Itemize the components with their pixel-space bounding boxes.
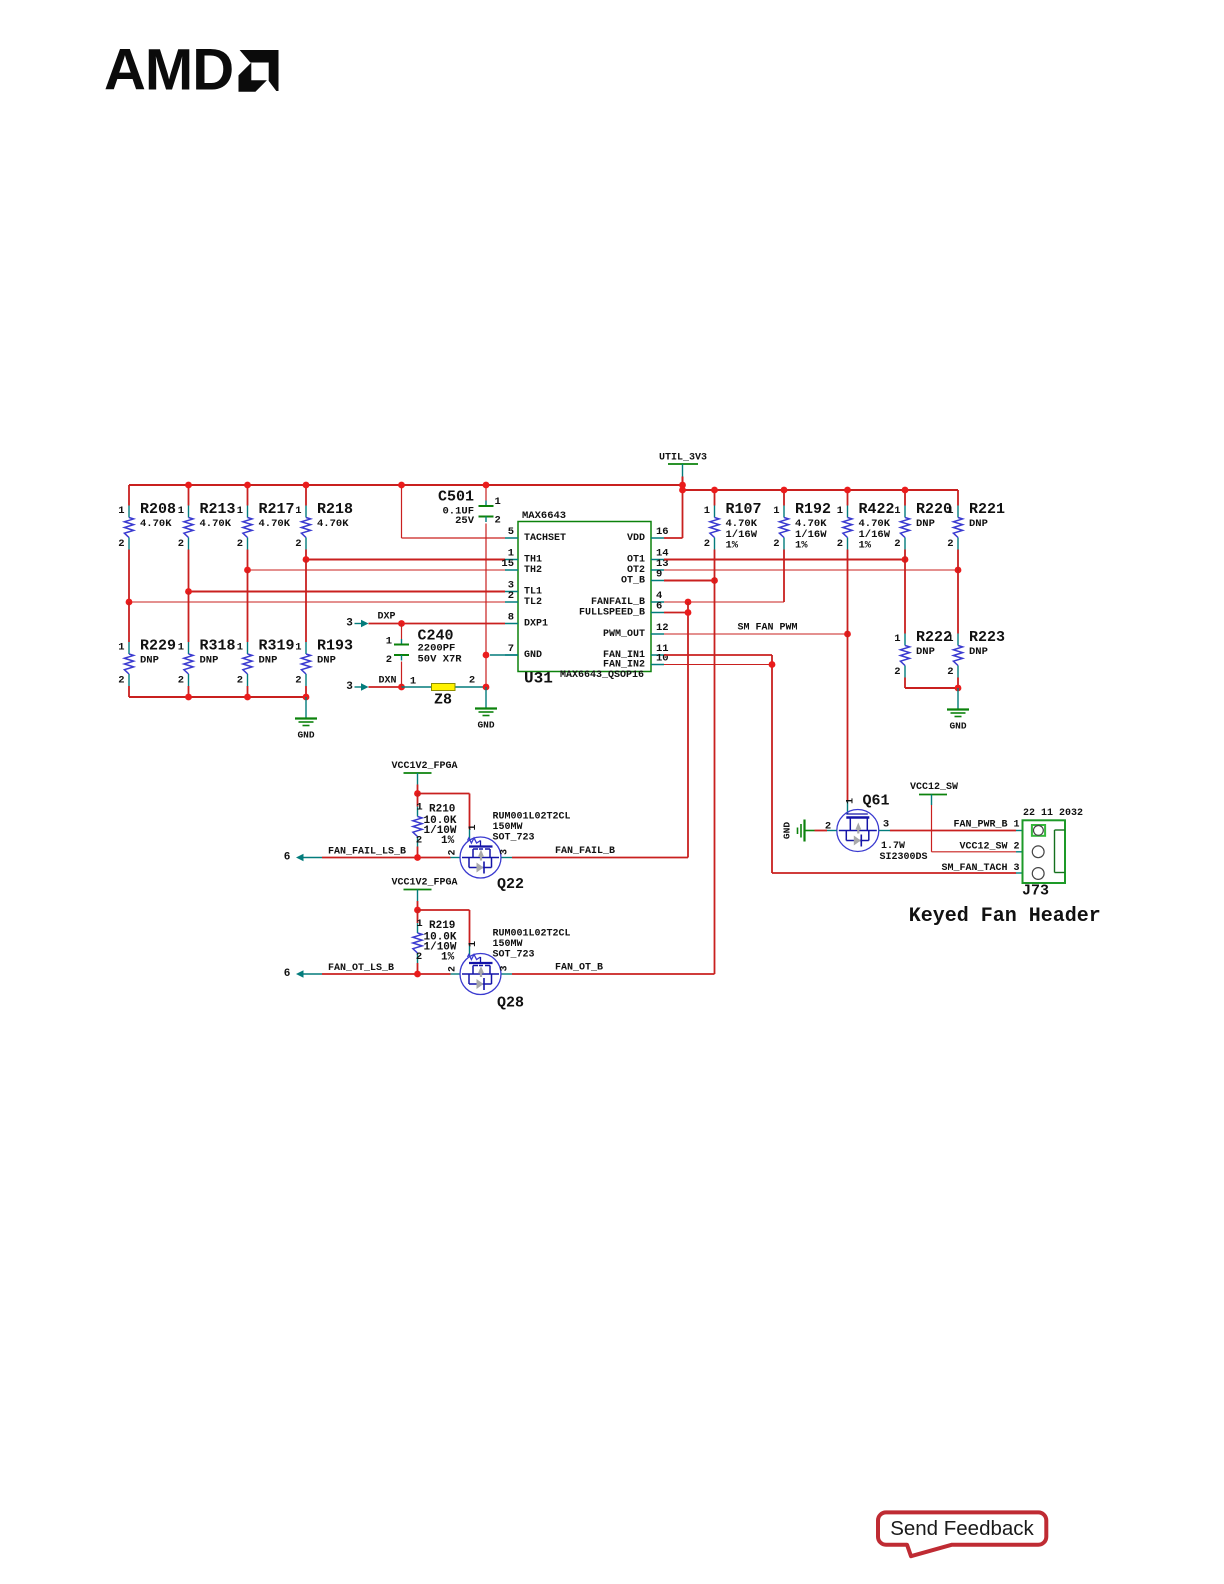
svg-text:Q61: Q61 bbox=[863, 793, 890, 810]
wire OT1 net bbox=[664, 550, 908, 634]
svg-text:FAN_OT_B: FAN_OT_B bbox=[555, 963, 603, 974]
svg-text:R193: R193 bbox=[317, 638, 353, 655]
svg-text:SOT_723: SOT_723 bbox=[493, 833, 535, 844]
wire TL2 net bbox=[126, 550, 505, 643]
svg-text:VCC12_SW: VCC12_SW bbox=[910, 782, 958, 793]
svg-text:15: 15 bbox=[501, 558, 514, 570]
resistor R210 bbox=[413, 802, 457, 848]
resistor R219 bbox=[413, 918, 457, 964]
svg-text:9: 9 bbox=[656, 569, 662, 581]
pin labels Q28 bbox=[448, 941, 511, 972]
power flag UTIL_3V3 bbox=[659, 453, 707, 477]
svg-text:OT_B: OT_B bbox=[621, 576, 645, 587]
wire FAN_OT_LS_B net bbox=[322, 963, 460, 977]
port DXP bbox=[346, 618, 368, 630]
svg-text:1: 1 bbox=[704, 505, 710, 517]
wire FAN_OT_B net bbox=[501, 963, 715, 975]
wire TL1 net bbox=[185, 550, 505, 643]
svg-text:2: 2 bbox=[178, 538, 184, 550]
svg-text:1: 1 bbox=[237, 505, 243, 517]
svg-text:2: 2 bbox=[495, 515, 501, 527]
svg-text:5: 5 bbox=[508, 526, 514, 538]
svg-text:1: 1 bbox=[118, 642, 124, 654]
wire R222 R223 gnd rail bbox=[905, 678, 961, 692]
svg-text:1: 1 bbox=[295, 642, 301, 654]
svg-text:6: 6 bbox=[656, 601, 662, 613]
svg-text:J73: J73 bbox=[1022, 883, 1049, 900]
svg-text:2: 2 bbox=[894, 538, 900, 550]
wire TH1 net bbox=[303, 550, 505, 643]
svg-text:1: 1 bbox=[468, 941, 479, 947]
svg-text:1: 1 bbox=[894, 505, 900, 517]
svg-text:R218: R218 bbox=[317, 501, 353, 518]
wire FAN_FAIL_LS_B net bbox=[322, 847, 460, 861]
svg-text:8: 8 bbox=[508, 612, 514, 624]
port FAN_OT_LS_B bbox=[284, 968, 322, 980]
svg-text:7: 7 bbox=[508, 643, 514, 655]
svg-text:TL1: TL1 bbox=[524, 587, 542, 598]
svg-text:2: 2 bbox=[118, 538, 124, 550]
svg-text:150MW: 150MW bbox=[493, 939, 523, 950]
port FAN_FAIL_LS_B bbox=[284, 852, 322, 864]
connector J73 bbox=[1022, 808, 1083, 900]
svg-text:2: 2 bbox=[386, 654, 392, 666]
svg-text:PWM_OUT: PWM_OUT bbox=[603, 629, 645, 640]
svg-text:2: 2 bbox=[237, 538, 243, 550]
svg-text:1: 1 bbox=[386, 636, 392, 648]
svg-text:1: 1 bbox=[846, 798, 857, 804]
svg-text:R422: R422 bbox=[859, 501, 895, 518]
svg-text:GND: GND bbox=[477, 720, 494, 731]
svg-text:Z8: Z8 bbox=[434, 692, 452, 709]
svg-text:R318: R318 bbox=[200, 638, 236, 655]
svg-text:R217: R217 bbox=[259, 501, 295, 518]
svg-text:3: 3 bbox=[883, 819, 889, 831]
resistor R218 bbox=[295, 501, 353, 550]
svg-text:MAX6643_QSOP16: MAX6643_QSOP16 bbox=[560, 670, 644, 681]
resistor R193 bbox=[295, 638, 353, 687]
svg-text:12: 12 bbox=[656, 622, 669, 634]
svg-text:Q22: Q22 bbox=[497, 876, 524, 893]
resistor R217 bbox=[237, 501, 295, 550]
svg-text:50V X7R: 50V X7R bbox=[418, 654, 463, 666]
svg-text:FAN_OT_LS_B: FAN_OT_LS_B bbox=[328, 963, 394, 974]
transistor Q28 bbox=[460, 929, 571, 1012]
svg-text:DNP: DNP bbox=[969, 518, 988, 530]
wire OT_B net bbox=[664, 550, 718, 975]
svg-text:TACHSET: TACHSET bbox=[524, 533, 566, 544]
wire VCC1V2 to R219 and Q28 drain bbox=[414, 901, 469, 956]
svg-text:VCC12_SW 2: VCC12_SW 2 bbox=[959, 842, 1019, 853]
svg-text:22 11 2032: 22 11 2032 bbox=[1023, 808, 1083, 819]
svg-text:DXP: DXP bbox=[377, 612, 395, 623]
svg-text:1%: 1% bbox=[441, 952, 455, 964]
svg-text:2: 2 bbox=[947, 538, 953, 550]
svg-text:DXP1: DXP1 bbox=[524, 619, 548, 630]
svg-text:2: 2 bbox=[704, 538, 710, 550]
ground GND3 bbox=[947, 688, 969, 732]
ground GND1 bbox=[295, 697, 317, 741]
svg-text:1: 1 bbox=[468, 824, 479, 830]
wire SM_FAN_TACH net bbox=[664, 655, 1023, 874]
resistor R220 bbox=[894, 501, 952, 550]
wire DXN net bbox=[369, 662, 487, 691]
pin labels Q22 bbox=[448, 824, 511, 855]
svg-text:1%: 1% bbox=[726, 540, 739, 552]
svg-text:Q28: Q28 bbox=[497, 995, 524, 1012]
svg-text:Keyed Fan Header: Keyed Fan Header bbox=[909, 905, 1101, 928]
part number SI2300DS bbox=[880, 852, 928, 863]
svg-text:2: 2 bbox=[469, 675, 475, 687]
wire SM_FAN_PWM net bbox=[664, 550, 851, 802]
ground GND2 bbox=[475, 687, 497, 731]
resistor R318 bbox=[178, 638, 236, 687]
Send Feedback button bbox=[878, 1512, 1046, 1556]
svg-text:16: 16 bbox=[656, 526, 669, 538]
svg-text:2: 2 bbox=[416, 835, 422, 847]
svg-text:OT1: OT1 bbox=[627, 555, 645, 566]
wire FAN_FAIL_B net bbox=[501, 846, 688, 858]
svg-text:FAN_PWR_B 1: FAN_PWR_B 1 bbox=[953, 820, 1019, 831]
svg-text:4.70K: 4.70K bbox=[200, 518, 232, 530]
resistor R221 bbox=[947, 501, 1005, 550]
wire Q61 gate from PWM bbox=[847, 802, 849, 815]
svg-text:R213: R213 bbox=[200, 501, 236, 518]
svg-text:3: 3 bbox=[346, 618, 353, 630]
svg-text:2: 2 bbox=[118, 675, 124, 687]
svg-text:R208: R208 bbox=[140, 501, 176, 518]
svg-text:1: 1 bbox=[837, 505, 843, 517]
svg-text:DNP: DNP bbox=[259, 655, 278, 667]
svg-text:R210: R210 bbox=[429, 804, 455, 816]
svg-text:MAX6643: MAX6643 bbox=[522, 510, 566, 522]
svg-text:R223: R223 bbox=[969, 629, 1005, 646]
svg-text:U31: U31 bbox=[524, 670, 553, 688]
svg-text:1: 1 bbox=[410, 676, 416, 688]
svg-text:25V: 25V bbox=[455, 515, 475, 527]
svg-text:150MW: 150MW bbox=[493, 822, 523, 833]
svg-text:2: 2 bbox=[237, 675, 243, 687]
svg-text:1: 1 bbox=[118, 505, 124, 517]
transistor Q22 bbox=[460, 812, 571, 894]
label Keyed Fan Header bbox=[909, 905, 1101, 928]
svg-text:DNP: DNP bbox=[969, 646, 988, 658]
svg-text:FULLSPEED_B: FULLSPEED_B bbox=[579, 608, 645, 619]
wire TH2 net bbox=[244, 550, 505, 643]
svg-text:GND: GND bbox=[949, 721, 966, 732]
svg-text:FAN_IN2: FAN_IN2 bbox=[603, 660, 645, 671]
svg-text:SM_FAN_TACH 3: SM_FAN_TACH 3 bbox=[941, 863, 1019, 874]
svg-text:Send Feedback: Send Feedback bbox=[890, 1517, 1034, 1540]
svg-text:6: 6 bbox=[284, 852, 291, 864]
svg-text:1: 1 bbox=[416, 802, 422, 814]
svg-text:3: 3 bbox=[500, 849, 511, 855]
svg-text:1: 1 bbox=[295, 505, 301, 517]
svg-text:DXN: DXN bbox=[378, 676, 396, 687]
resistor R422 bbox=[837, 501, 895, 552]
power flag VCC1V2_FPGA (Q28) bbox=[391, 878, 457, 902]
wire DNP bottom rail bbox=[129, 686, 309, 700]
wire OT2 net bbox=[664, 550, 961, 634]
pin labels Q61 bbox=[825, 798, 889, 833]
svg-text:2: 2 bbox=[416, 951, 422, 963]
svg-text:6: 6 bbox=[284, 968, 291, 980]
svg-text:UTIL_3V3: UTIL_3V3 bbox=[659, 453, 707, 464]
svg-text:4.70K: 4.70K bbox=[140, 518, 172, 530]
svg-text:R219: R219 bbox=[429, 920, 455, 932]
svg-text:3: 3 bbox=[346, 681, 353, 693]
svg-text:R229: R229 bbox=[140, 638, 176, 655]
svg-text:FANFAIL_B: FANFAIL_B bbox=[591, 597, 645, 608]
svg-text:TH2: TH2 bbox=[524, 565, 542, 576]
svg-text:RUM001L02T2CL: RUM001L02T2CL bbox=[493, 812, 571, 823]
svg-text:DNP: DNP bbox=[916, 518, 935, 530]
svg-text:R192: R192 bbox=[795, 501, 831, 518]
svg-text:2: 2 bbox=[947, 666, 953, 678]
svg-text:1%: 1% bbox=[795, 540, 808, 552]
svg-text:TL2: TL2 bbox=[524, 597, 542, 608]
svg-text:DNP: DNP bbox=[140, 655, 159, 667]
svg-text:2: 2 bbox=[295, 675, 301, 687]
svg-text:2: 2 bbox=[178, 675, 184, 687]
svg-text:1: 1 bbox=[178, 505, 184, 517]
wire FANFAIL_B net bbox=[664, 550, 784, 858]
svg-text:2: 2 bbox=[894, 666, 900, 678]
svg-text:4.70K: 4.70K bbox=[259, 518, 291, 530]
svg-text:DNP: DNP bbox=[317, 655, 336, 667]
svg-text:1.7W: 1.7W bbox=[881, 841, 905, 852]
svg-text:GND: GND bbox=[297, 730, 314, 741]
wire FAN_PWR_B net bbox=[879, 820, 1023, 831]
resistor R208 bbox=[118, 501, 176, 550]
resistor R213 bbox=[178, 501, 236, 550]
svg-text:DNP: DNP bbox=[200, 655, 219, 667]
svg-text:1: 1 bbox=[416, 918, 422, 930]
svg-text:1: 1 bbox=[894, 633, 900, 645]
svg-text:VDD: VDD bbox=[627, 533, 645, 544]
resistor R319 bbox=[237, 638, 295, 687]
wire UTIL_3V3 rail bbox=[129, 477, 958, 539]
wire C501-GND column bbox=[483, 524, 518, 691]
svg-text:R221: R221 bbox=[969, 501, 1005, 518]
svg-text:AMD: AMD bbox=[104, 38, 233, 103]
svg-text:GND: GND bbox=[524, 650, 542, 661]
svg-text:GND: GND bbox=[782, 822, 793, 839]
svg-text:DNP: DNP bbox=[916, 646, 935, 658]
svg-text:R107: R107 bbox=[726, 501, 762, 518]
wire VCC1V2 to R210 and Q22 drain bbox=[414, 785, 469, 840]
resistor R223 bbox=[947, 629, 1005, 678]
svg-text:2: 2 bbox=[773, 538, 779, 550]
capacitor C501 bbox=[438, 489, 501, 528]
svg-text:2: 2 bbox=[448, 966, 459, 972]
svg-text:4.70K: 4.70K bbox=[317, 518, 349, 530]
svg-text:1: 1 bbox=[178, 642, 184, 654]
port DXN bbox=[346, 681, 368, 693]
svg-text:SI2300DS: SI2300DS bbox=[880, 852, 928, 863]
resistor R107 bbox=[704, 501, 762, 552]
svg-text:RUM001L02T2CL: RUM001L02T2CL bbox=[493, 929, 571, 940]
svg-text:OT2: OT2 bbox=[627, 565, 645, 576]
wire FULLSPEED_B net bbox=[664, 609, 691, 616]
svg-text:1: 1 bbox=[495, 496, 501, 508]
svg-text:2: 2 bbox=[837, 538, 843, 550]
svg-text:R319: R319 bbox=[259, 638, 295, 655]
svg-text:1: 1 bbox=[237, 642, 243, 654]
svg-text:2: 2 bbox=[448, 849, 459, 855]
wire VCC12_SW net bbox=[932, 805, 1023, 853]
svg-text:1: 1 bbox=[947, 505, 953, 517]
jumper Z8 bbox=[432, 684, 456, 709]
svg-text:1%: 1% bbox=[441, 835, 455, 847]
svg-text:TH1: TH1 bbox=[524, 555, 542, 566]
resistor R192 bbox=[773, 501, 831, 552]
svg-text:2: 2 bbox=[508, 590, 514, 602]
power flag VCC1V2_FPGA (Q22) bbox=[391, 761, 457, 785]
svg-text:VCC1V2_FPGA: VCC1V2_FPGA bbox=[391, 761, 457, 772]
svg-text:C501: C501 bbox=[438, 489, 474, 506]
capacitor C240 bbox=[386, 628, 463, 667]
svg-text:1: 1 bbox=[947, 633, 953, 645]
transistor Q61 bbox=[837, 793, 905, 853]
svg-text:VCC1V2_FPGA: VCC1V2_FPGA bbox=[391, 878, 457, 889]
svg-text:FAN_FAIL_LS_B: FAN_FAIL_LS_B bbox=[328, 847, 406, 858]
svg-text:2: 2 bbox=[295, 538, 301, 550]
svg-text:3: 3 bbox=[500, 965, 511, 971]
power flag VCC12_SW bbox=[910, 782, 958, 805]
resistor R222 bbox=[894, 629, 952, 678]
AMD logo bbox=[104, 38, 279, 103]
svg-text:FAN_FAIL_B: FAN_FAIL_B bbox=[555, 846, 615, 857]
resistor R229 bbox=[118, 638, 176, 687]
svg-text:1%: 1% bbox=[859, 540, 872, 552]
ground GND4 (Q61 source) bbox=[782, 820, 837, 842]
svg-text:SOT_723: SOT_723 bbox=[493, 950, 535, 961]
svg-text:SM FAN PWM: SM FAN PWM bbox=[737, 623, 797, 634]
wire DXP net bbox=[369, 612, 506, 640]
svg-text:1: 1 bbox=[773, 505, 779, 517]
IC U31 MAX6643 bbox=[501, 510, 668, 688]
